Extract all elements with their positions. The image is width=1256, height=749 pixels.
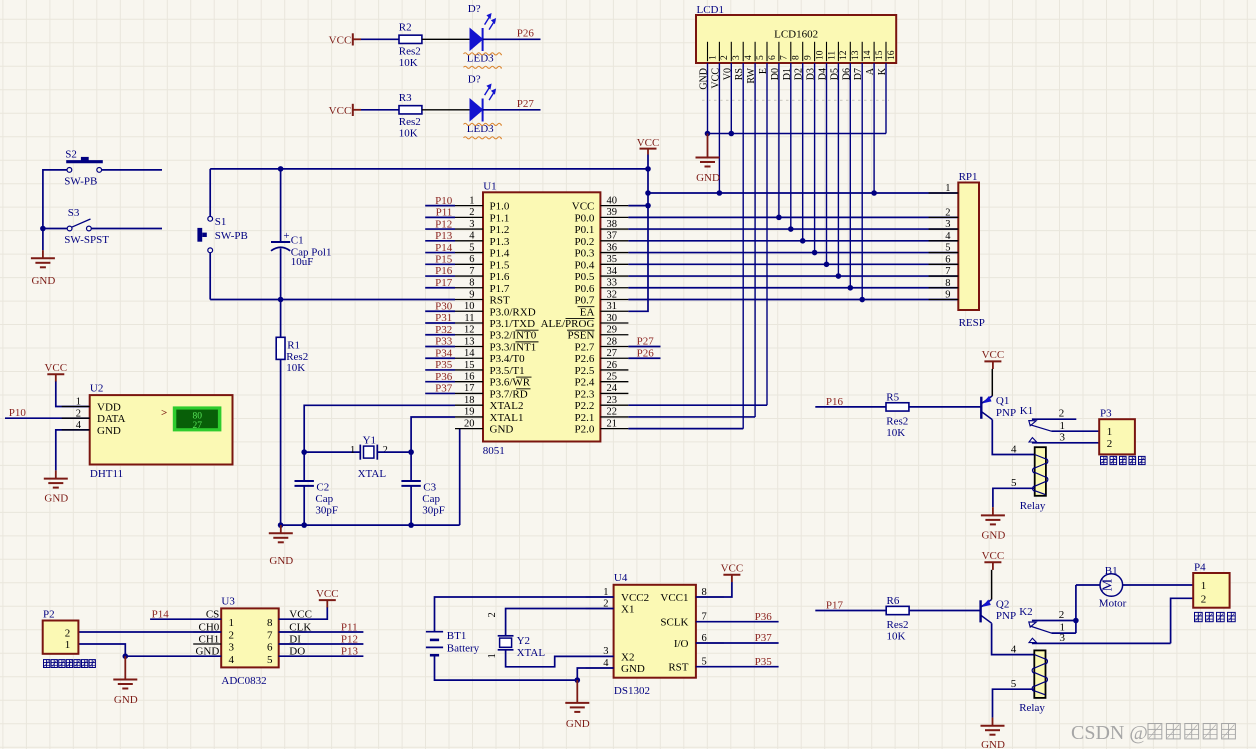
svg-text:P17: P17	[435, 277, 453, 289]
wire net P35	[696, 666, 779, 668]
svg-text:10K: 10K	[399, 57, 418, 69]
svg-text:GND: GND	[621, 663, 645, 675]
pin 11 LCD1 (D4)	[818, 42, 838, 80]
pin 5 U4 (RST)	[668, 657, 724, 674]
svg-text:2: 2	[487, 612, 498, 617]
power VCC (ADC)	[316, 588, 339, 608]
svg-text:VCC: VCC	[44, 362, 67, 374]
wire S3 left	[43, 228, 67, 230]
capacitor C1 Cap Pol1 10uF	[271, 169, 331, 300]
faded marker line under LCD labels	[702, 99, 889, 101]
svg-text:P27: P27	[517, 98, 535, 110]
svg-text:P12: P12	[435, 218, 452, 230]
ground GND (switches)	[31, 250, 55, 287]
op-amp P2 connector box	[43, 608, 79, 654]
svg-text:4: 4	[603, 658, 609, 669]
svg-text:P35: P35	[435, 359, 453, 371]
resistor R1 Res2 10K	[276, 337, 308, 374]
svg-text:P10: P10	[9, 407, 27, 419]
svg-text:37: 37	[607, 231, 618, 242]
resistor R2 Res2 10K	[399, 22, 422, 69]
svg-text:3: 3	[945, 219, 950, 230]
pin 7 U3 (CLK)	[267, 621, 311, 641]
svg-text:14: 14	[863, 50, 873, 60]
wire P2 pin2 to CH0	[78, 631, 221, 633]
svg-text:P36: P36	[435, 371, 453, 383]
pin 33 U1 right (P0.6)	[575, 278, 629, 295]
junction VCC rail LCD pin15	[871, 190, 877, 196]
svg-text:RESP: RESP	[959, 317, 985, 329]
svg-text:VCC1: VCC1	[660, 592, 688, 604]
wire DHT11 GND	[56, 430, 90, 471]
svg-text:13: 13	[464, 336, 475, 347]
svg-text:4: 4	[1011, 643, 1017, 655]
wire net P0.2 bus	[628, 240, 958, 242]
svg-text:PNP: PNP	[996, 407, 1016, 419]
pin 4 U3 (GND)	[193, 646, 234, 666]
svg-text:2: 2	[1059, 408, 1065, 420]
op-amp P4 connector box	[1193, 561, 1229, 607]
overline WR	[516, 376, 532, 378]
svg-text:S1: S1	[215, 216, 227, 228]
wire net P12	[279, 643, 364, 645]
svg-text:X2: X2	[621, 651, 634, 663]
svg-text:DS1302: DS1302	[614, 685, 650, 697]
wire top rail (S1/C1/VCC net)	[210, 168, 648, 170]
svg-text:U1: U1	[483, 180, 496, 192]
svg-text:P11: P11	[436, 207, 453, 219]
wire Y2 to U4 X2	[506, 650, 614, 667]
svg-text:LCD1602: LCD1602	[774, 29, 818, 41]
svg-text:16: 16	[887, 50, 897, 60]
svg-text:P1.0: P1.0	[490, 201, 510, 213]
svg-text:P2.3: P2.3	[575, 388, 595, 400]
svg-text:27: 27	[607, 348, 618, 359]
pin 2 LCD1 (VCC)	[710, 42, 730, 89]
svg-text:BT1: BT1	[447, 630, 467, 642]
junction C1 top	[278, 166, 284, 172]
svg-text:3: 3	[1060, 632, 1066, 644]
svg-text:P2.2: P2.2	[575, 400, 595, 412]
svg-text:8051: 8051	[483, 445, 505, 457]
svg-text:1: 1	[469, 195, 474, 206]
svg-text:10K: 10K	[886, 427, 905, 439]
wire net P0.5 bus	[628, 275, 958, 277]
svg-text:P0.2: P0.2	[575, 236, 595, 248]
svg-text:38: 38	[607, 219, 618, 230]
power VCC (top middle)	[637, 137, 660, 155]
svg-text:9: 9	[469, 289, 474, 300]
wire net P0.3 bus	[628, 252, 958, 254]
pin 39 U1 right (P0.0)	[575, 207, 629, 224]
junction LCD gnd pin3	[729, 131, 735, 137]
DHT11 green display	[173, 406, 222, 431]
svg-text:R2: R2	[399, 22, 412, 34]
svg-text:SW-SPST: SW-SPST	[64, 234, 109, 246]
svg-text:8: 8	[792, 55, 802, 60]
pin 8 RP1	[929, 278, 959, 289]
svg-text:9: 9	[945, 290, 950, 301]
pin 24 U1 right (P2.3)	[575, 383, 629, 400]
wire LCD pin 3 (V0)	[730, 63, 732, 134]
ground GND (DS1302)	[565, 680, 589, 730]
svg-text:C2: C2	[316, 482, 329, 494]
svg-text:M: M	[1100, 578, 1115, 591]
power VCC (DS1302)	[721, 563, 744, 583]
wire relay K1 pin5 to gnd	[993, 488, 1035, 507]
svg-text:P2.4: P2.4	[575, 377, 595, 389]
svg-text:3: 3	[732, 55, 742, 60]
wire RST rail	[210, 299, 455, 301]
svg-text:1: 1	[350, 445, 355, 456]
wire crystal left	[304, 451, 360, 453]
svg-text:14: 14	[464, 348, 475, 359]
overline RD	[516, 388, 531, 390]
svg-text:U3: U3	[221, 596, 235, 608]
wire VCC vertical to EA	[628, 155, 648, 312]
wire net P11	[279, 631, 364, 633]
svg-text:16: 16	[464, 372, 475, 383]
label power interface	[1195, 612, 1236, 621]
svg-text:2: 2	[1107, 438, 1113, 450]
pin 8 U1 left (P1.7)	[455, 278, 510, 295]
squiggle above LED3	[464, 123, 502, 125]
svg-text:P33: P33	[435, 336, 453, 348]
wire VCC rail to RP1 pin1	[648, 192, 958, 194]
LED D? LED3 (row 2)	[467, 73, 496, 135]
pin 6 RP1	[929, 254, 959, 265]
svg-text:5: 5	[469, 242, 474, 253]
op-amp P3 connector box	[1099, 408, 1135, 455]
pin 8 U4 (VCC1)	[660, 587, 724, 604]
svg-text:2: 2	[603, 598, 608, 609]
wire net P0.0 bus	[628, 216, 958, 218]
op-amp U3 ADC0832 box	[221, 596, 279, 687]
svg-text:GND: GND	[31, 275, 55, 287]
pin 4 RP1	[929, 231, 959, 242]
transistor Q1 PNP	[981, 369, 1016, 420]
wire net P0.6 bus	[628, 287, 958, 289]
svg-text:RP1: RP1	[959, 171, 978, 183]
wire net P0.4 bus	[628, 263, 958, 265]
pin 15 LCD1 (A)	[865, 42, 885, 75]
relay K1 lever and pin1	[1030, 425, 1099, 432]
junction P0.5 / LCD D5	[836, 273, 842, 279]
wire P2.1 to LCD RW	[628, 416, 755, 418]
svg-text:21: 21	[607, 418, 618, 429]
svg-text:P30: P30	[435, 300, 453, 312]
svg-text:C3: C3	[423, 482, 436, 494]
svg-text:S2: S2	[65, 148, 77, 160]
svg-text:P1.7: P1.7	[490, 283, 510, 295]
svg-text:CSDN @: CSDN @	[1071, 722, 1148, 744]
wire R6 to Q2 base	[909, 610, 981, 612]
pin 1 RP1	[929, 183, 959, 194]
wire XTAL2 pin18	[304, 405, 455, 452]
pin 29 U1 right (PSEN)	[567, 325, 628, 342]
svg-text:20: 20	[464, 418, 475, 429]
overline INT0	[516, 329, 539, 331]
svg-text:5: 5	[756, 55, 766, 60]
ground GND (Q2)	[981, 718, 1005, 749]
wire LCD pin 7 (D0)	[778, 63, 780, 217]
svg-text:4: 4	[945, 231, 951, 242]
pin 28 U1 right (P2.7)	[575, 336, 629, 353]
pin 9 RP1	[929, 290, 959, 301]
junction motor/K2 pin2	[1073, 618, 1079, 624]
svg-text:CH1: CH1	[199, 633, 220, 645]
pin 18 U1 left (XTAL2)	[455, 395, 523, 412]
svg-text:P0.1: P0.1	[575, 224, 595, 236]
svg-text:Q2: Q2	[996, 599, 1009, 611]
svg-text:P1.6: P1.6	[490, 271, 510, 283]
pin 1 U4 (VCC2)	[586, 587, 650, 604]
svg-text:3: 3	[229, 642, 235, 654]
wire XTAL1 pin19	[411, 417, 455, 452]
svg-text:7: 7	[945, 266, 950, 277]
svg-text:Y1: Y1	[363, 435, 376, 447]
pin 15 U1 left (P3.5/T1)	[455, 360, 525, 377]
svg-text:33: 33	[607, 278, 618, 289]
svg-text:Res2: Res2	[399, 116, 421, 128]
wire net P14	[425, 252, 455, 254]
pin 8 U3 (VCC)	[267, 609, 312, 629]
op-amp U2 DHT11 box	[90, 383, 233, 480]
svg-text:S3: S3	[68, 207, 80, 219]
svg-text:GND: GND	[114, 694, 138, 706]
pin 16 U1 left (P3.6/WR)	[455, 372, 531, 389]
svg-text:40: 40	[607, 195, 618, 206]
pin 7 U1 left (P1.6)	[455, 266, 510, 283]
junction DS1302 gnd	[575, 677, 581, 683]
pin 30 U1 right (ALE/PROG)	[541, 313, 629, 330]
resistor R5 Res2 10K	[886, 392, 909, 440]
svg-text:1: 1	[708, 55, 718, 60]
svg-text:U2: U2	[90, 383, 103, 395]
wire VCC to R2	[361, 38, 399, 40]
wire P4 pin2 to K2 pin3	[1171, 598, 1194, 643]
svg-text:P4: P4	[1194, 561, 1206, 573]
switch S2 SW-PB	[64, 148, 103, 187]
squiggle below LED3	[464, 66, 502, 68]
svg-text:30pF: 30pF	[315, 505, 338, 517]
wire GND node to U3 GND	[125, 655, 221, 657]
pin 5 RP1	[929, 243, 959, 254]
svg-text:2: 2	[76, 408, 81, 419]
wire net P37	[425, 392, 455, 394]
pin 10 U1 left (P3.0/RXD)	[455, 301, 536, 318]
svg-text:P27: P27	[637, 336, 655, 348]
svg-text:6: 6	[267, 642, 273, 654]
svg-text:1: 1	[1107, 426, 1113, 438]
wire net P13	[279, 655, 364, 657]
pin 17 U1 left (P3.7/RD)	[455, 383, 528, 400]
svg-text:P2.1: P2.1	[575, 412, 595, 424]
svg-text:K1: K1	[1020, 405, 1033, 417]
wire net P33	[425, 345, 455, 347]
wire U4 X1 to Y2	[506, 609, 614, 636]
svg-text:7: 7	[267, 630, 273, 642]
svg-text:ALE/PROG: ALE/PROG	[541, 318, 595, 330]
junction RST rail / C1-R1	[278, 297, 284, 303]
svg-text:P13: P13	[341, 646, 359, 658]
pin 1 U3 (CS)	[193, 609, 234, 629]
svg-text:10: 10	[464, 301, 475, 312]
svg-text:1: 1	[229, 617, 235, 629]
wire motor right to P4 pin1	[1123, 584, 1194, 586]
wire net P12	[425, 228, 455, 230]
junction VCC/top-rail	[645, 166, 651, 172]
relay K2 lever and pin1	[1030, 626, 1076, 633]
pin 19 U1 left (XTAL1)	[455, 407, 523, 424]
wire LCD pin 8 (D1)	[790, 63, 792, 229]
svg-text:P1.4: P1.4	[490, 248, 510, 260]
svg-text:26: 26	[607, 360, 618, 371]
svg-text:SW-PB: SW-PB	[215, 230, 248, 242]
pin 38 U1 right (P0.1)	[575, 219, 629, 236]
pin 10 LCD1 (D3)	[806, 42, 826, 80]
svg-text:Motor: Motor	[1099, 597, 1127, 609]
wire P2 pin1 to GND node	[78, 644, 125, 656]
junction P0.3 / LCD D3	[812, 250, 818, 256]
svg-text:36: 36	[607, 242, 618, 253]
svg-text:27: 27	[192, 421, 202, 431]
svg-text:29: 29	[607, 325, 618, 336]
svg-text:17: 17	[464, 383, 475, 394]
wire net P36	[696, 621, 779, 623]
svg-text:31: 31	[607, 301, 618, 312]
wire LCD pin 4 (RS)	[742, 63, 744, 429]
wire net P14 to CS	[150, 618, 221, 620]
svg-text:R6: R6	[887, 595, 900, 607]
svg-text:P3.5/T1: P3.5/T1	[490, 365, 525, 377]
pin 7 RP1	[929, 266, 959, 277]
svg-text:P2.0: P2.0	[575, 424, 595, 436]
junction P0.4 / LCD D4	[824, 262, 830, 268]
svg-text:6: 6	[702, 633, 707, 644]
svg-text:10uF: 10uF	[291, 256, 314, 268]
svg-text:P16: P16	[435, 265, 453, 277]
svg-text:4: 4	[1011, 443, 1017, 455]
junction LCD gnd pin1	[705, 131, 711, 137]
wire R5 to Q1 base	[909, 406, 981, 408]
pin 4 U4 (GND)	[586, 658, 645, 675]
switch S1 SW-PB	[200, 216, 248, 253]
svg-text:P2.7: P2.7	[575, 341, 595, 353]
svg-text:19: 19	[464, 407, 475, 418]
pin 37 U1 right (P0.2)	[575, 231, 629, 248]
junction P0.1 / LCD D1	[788, 226, 794, 232]
svg-text:15: 15	[875, 50, 885, 60]
pin 3 LCD1 (V0)	[722, 42, 742, 80]
wire net P13	[425, 240, 455, 242]
junction S3-ground rail	[40, 226, 46, 232]
svg-text:P3.1/TXD: P3.1/TXD	[490, 318, 536, 330]
svg-text:K2: K2	[1019, 606, 1032, 618]
pin 3 U4 (X2)	[586, 646, 635, 663]
svg-text:12: 12	[839, 50, 849, 60]
resistor RP1 RESP resistor pack	[958, 171, 985, 329]
svg-text:2: 2	[945, 207, 950, 218]
op-amp LCD1 LCD1602 display box	[696, 4, 896, 63]
svg-text:SCLK: SCLK	[660, 617, 688, 629]
svg-text:22: 22	[607, 407, 618, 418]
svg-text:32: 32	[607, 289, 618, 300]
pin 7 U4 (SCLK)	[660, 612, 724, 629]
svg-text:D?: D?	[468, 73, 481, 85]
junction GND rail at C3	[408, 522, 414, 528]
net stub P27 (pin28)	[628, 345, 660, 347]
wire S1 top	[209, 169, 211, 217]
pin 11 U1 left (P3.1/TXD)	[455, 313, 535, 330]
svg-text:P3.7/RD: P3.7/RD	[490, 388, 528, 400]
junction GND rail at R1	[278, 522, 284, 528]
svg-text:VCC: VCC	[329, 105, 352, 117]
pin 25 U1 right (P2.4)	[575, 372, 629, 389]
svg-text:P2: P2	[43, 608, 55, 620]
pin 2 RP1	[929, 207, 959, 218]
svg-text:P3.3/INT1: P3.3/INT1	[490, 341, 537, 353]
svg-text:Res2: Res2	[887, 619, 909, 631]
pin 2 U4 (X1)	[586, 598, 635, 615]
svg-text:P0.5: P0.5	[575, 271, 595, 283]
svg-text:VCC2: VCC2	[621, 592, 649, 604]
wire net P16	[425, 275, 455, 277]
wire LCD pin 2 (VCC)	[718, 63, 720, 193]
pin 6 U3 (DI)	[267, 633, 307, 653]
wire VCC to R3	[361, 109, 399, 111]
pin 4 U2 (GND)	[62, 420, 121, 437]
wire net P32	[425, 334, 455, 336]
power VCC (Q2)	[982, 550, 1005, 570]
pin 2 U1 left (P1.1)	[455, 207, 509, 224]
watermark blocks	[1148, 724, 1235, 739]
pin 35 U1 right (P0.4)	[575, 254, 629, 271]
ground GND (Q1)	[981, 507, 1005, 541]
svg-text:R5: R5	[886, 392, 899, 404]
wire net P16 to R5	[815, 406, 886, 408]
svg-text:5: 5	[945, 243, 950, 254]
svg-text:8: 8	[469, 278, 474, 289]
svg-text:10K: 10K	[887, 631, 906, 643]
wire motor drop	[1075, 585, 1077, 633]
wire LCD pin 15 (A)	[873, 63, 875, 193]
pin 20 U1 left (GND)	[455, 418, 513, 435]
svg-text:5: 5	[1011, 678, 1017, 690]
svg-text:2: 2	[383, 445, 388, 456]
wire LCD pin 5 (RW)	[754, 63, 756, 417]
svg-text:P32: P32	[435, 324, 452, 336]
svg-text:30: 30	[607, 313, 618, 324]
svg-text:23: 23	[607, 395, 618, 406]
wire net P37	[696, 642, 779, 644]
wire net P30	[425, 310, 455, 312]
svg-text:VCC: VCC	[982, 550, 1005, 562]
wire net P0.7 bus	[628, 299, 958, 301]
overline PROG	[566, 317, 595, 319]
svg-text:34: 34	[607, 266, 618, 277]
pin 13 U1 left (P3.3/INT1)	[455, 336, 536, 353]
junction crystal right / C3	[408, 449, 414, 455]
svg-text:7: 7	[469, 266, 474, 277]
wire S1 bottom	[209, 253, 211, 300]
pin 27 U1 right (P2.6)	[575, 348, 629, 365]
svg-text:P0.3: P0.3	[575, 248, 595, 260]
ground GND (DHT11)	[44, 470, 68, 504]
pin 5 U1 left (P1.4)	[455, 242, 510, 259]
svg-text:4: 4	[744, 55, 754, 60]
svg-text:Q1: Q1	[996, 395, 1009, 407]
